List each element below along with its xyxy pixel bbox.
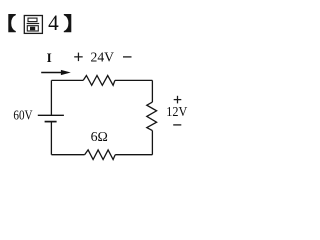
title bracket left 【 (8, 14, 16, 32)
label minus (right) (173, 124, 181, 126)
label plus (top) (74, 53, 83, 62)
wire resistor R1 to top-right corner (115, 79, 152, 81)
svg-text:6Ω: 6Ω (91, 130, 108, 145)
battery B1 long plate (positive) (38, 114, 64, 116)
battery B1 short plate (negative) (45, 121, 57, 123)
svg-text:60V: 60V (13, 108, 32, 123)
label plus (right) (174, 96, 182, 104)
label minus (top) (123, 56, 132, 58)
title bracket right 】 (64, 14, 72, 32)
svg-text:4: 4 (48, 10, 59, 35)
resistor R3 6ohm (bottom) (85, 150, 116, 160)
svg-text:I: I (47, 50, 52, 65)
resistor R1 24V (top) (83, 76, 115, 86)
wire bottom-right corner to resistor R3 (115, 154, 152, 156)
wire bottom-left corner up to battery (50, 122, 52, 155)
wire top-right corner down to resistor R2 (151, 80, 153, 102)
resistor R2 12V (right) (147, 102, 157, 131)
title character 圖 (24, 16, 42, 34)
wire resistor R3 to bottom-left corner (51, 154, 84, 156)
wire resistor R2 to bottom-right corner (151, 131, 153, 155)
current arrow (41, 72, 63, 74)
wire top-left to resistor R1 (51, 79, 83, 81)
svg-text:12V: 12V (166, 104, 187, 119)
wire battery to top-left corner (50, 80, 52, 115)
svg-text:24V: 24V (91, 50, 115, 65)
